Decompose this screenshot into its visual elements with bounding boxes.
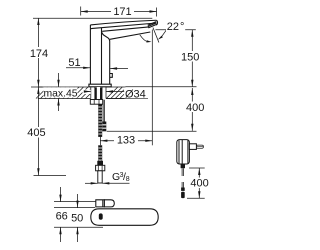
Ø34 leader right arrow and text [106,87,150,100]
aerator [148,22,157,28]
spout nose [156,20,157,25]
dim 66 bottom arrow [59,227,61,242]
dim 174 text [28,47,50,60]
top edge [90,20,156,25]
dim 405 arrows [37,87,39,175]
supply hose lower segment [98,145,102,161]
dim 171 ticks [81,7,157,17]
dim 174 line [37,18,39,87]
dim 405 line [37,87,39,175]
supply hose upper segment [98,104,102,137]
svg-text:50: 50 [71,212,83,224]
dim 171 text [111,6,134,19]
G3/8 dim right arrow with text [102,171,130,185]
temperature stub [110,74,113,78]
dim 405 bottom tick [34,175,67,177]
power supply body [177,140,190,164]
plug prong pin [196,145,203,148]
svg-text:400: 400 [186,102,204,114]
dim 171 arrows [81,10,157,12]
dim 51 right arrow [110,67,128,69]
spout underside edge [110,32,150,39]
cable upper segment [182,168,183,176]
dim 150 text [180,51,202,63]
svg-text:8: 8 [126,176,130,183]
top chamfer edge [91,23,157,29]
hose hex fitting [96,165,105,171]
max.45 text [43,87,77,99]
angle 22 stream axis tilted [153,28,159,43]
dim 400 lower bottom tick [187,197,205,199]
bottom view: 50 top extension line [54,207,95,209]
svg-text:51: 51 [68,57,80,69]
dim 133 text [114,134,138,146]
dim 400 lower top tick [189,167,205,169]
angle 22 leader baseline [156,29,196,31]
dim 171 line [81,11,157,13]
max.45 upper-right arrow [57,73,59,87]
sensor window [99,213,103,219]
dim 51 text and underline arrow [66,57,90,69]
svg-text:66: 66 [56,211,68,223]
bottom view spout tab [96,200,115,207]
dim 150 arrows [191,30,193,87]
svg-text:171: 171 [113,6,131,18]
bottom view: 66 top extension line [54,201,96,203]
base plate [89,84,111,87]
cable lower segment [182,182,183,188]
dim 66 top arrow [59,187,61,202]
angle 22 arc arrowhead [146,40,151,42]
counter hatch band [36,87,126,99]
G3/8 dim left arrow [85,182,98,184]
inner corner edge [102,32,110,85]
dim 174 arrows [37,18,39,87]
dim 50 bottom arrow [76,227,78,242]
plug prong stub [189,144,196,150]
dim 133 arrows [100,140,152,142]
svg-text:133: 133 [117,134,135,146]
mounting nut [90,100,102,105]
dim 150 line [191,30,193,87]
hose end level line [107,130,197,132]
svg-text:174: 174 [30,48,48,60]
svg-text:150: 150 [181,51,199,63]
max.45 lower-right arrow [57,99,59,112]
cable connector at body [181,164,185,168]
threaded shank [95,87,103,100]
bottom view: bottom extension line [54,226,103,228]
dim 50 top arrow [76,194,78,208]
counter top extension right [126,86,197,88]
front face edge [89,25,91,84]
counter level tick on dim line [31,86,43,88]
svg-text:22°: 22° [167,21,185,33]
dim 133 tick [99,137,101,146]
tail pipe G3/8 [98,171,102,183]
lower front edge [102,27,149,31]
inner front edge [101,28,103,85]
aerator axis line [151,30,153,146]
dim 400 mid text [185,102,207,115]
bottom view main body [91,209,158,226]
svg-text:405: 405 [27,127,45,139]
dim 400 lower arrows [198,168,200,198]
cable end fitting [181,188,185,199]
faucet body outline [89,20,158,87]
text 22deg [166,22,185,32]
dim 400 lower line [198,168,200,198]
svg-text:400: 400 [190,177,208,189]
cable connector [102,122,106,132]
dim 400 lower text [190,177,211,189]
dim 400 mid line [191,88,193,131]
dim 405 text [26,127,48,139]
dim 133 line [100,140,152,142]
counter bottom line right section [106,98,148,100]
angle 22 leader diagonal [162,30,167,37]
angle 22 arc [140,35,147,42]
angle 22 leader arrowhead [158,36,163,40]
hole edges [90,87,92,99]
dim 400 mid arrows [191,88,193,131]
svg-text:max.45: max.45 [43,88,77,99]
dim 174 top extension line [33,17,152,19]
hose crimp collar [97,161,103,166]
Ø34 leader left arrow [83,90,91,95]
sensor cable [103,100,104,122]
svg-text:Ø34: Ø34 [125,88,146,100]
